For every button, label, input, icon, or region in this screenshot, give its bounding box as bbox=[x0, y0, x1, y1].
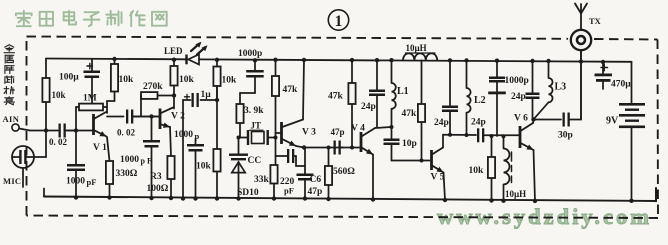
capacitor 1000pF (input RF bypass) bbox=[67, 164, 85, 198]
transistor V6 bbox=[519, 123, 534, 150]
capacitor 24p (V5 collector) bbox=[442, 60, 458, 134]
junction node (76,130.5) bbox=[74, 128, 78, 132]
watermark top: shiyong dianzi zhizuo wang (green) bbox=[16, 11, 167, 26]
svg-text:560Ω: 560Ω bbox=[333, 167, 355, 177]
svg-text:V 6: V 6 bbox=[514, 114, 528, 124]
resistor 10k (input bias upper) bbox=[42, 59, 49, 131]
junction node (109.5,197.5) bbox=[107, 195, 111, 199]
capacitor 1000pF (V2 base bypass) bbox=[143, 117, 160, 199]
junction node (217,59.8) bbox=[215, 58, 219, 62]
junction node (328.5,199) bbox=[326, 197, 330, 201]
terminal AIN bbox=[3, 114, 20, 131]
microphone MIC bbox=[3, 146, 34, 186]
capacitor 30p (output coupling) bbox=[563, 113, 582, 127]
wire V1 emitter to 330 bbox=[107, 137, 110, 161]
svg-text:1000: 1000 bbox=[66, 177, 85, 187]
junction node (304,147.5) bbox=[302, 145, 306, 149]
wire 24p to collector bbox=[376, 96, 378, 127]
wire V5 collector bus bbox=[443, 134, 476, 136]
transistor V5 bbox=[430, 148, 443, 173]
junction node (466.5,135) bbox=[465, 133, 469, 137]
svg-text:V 3: V 3 bbox=[302, 128, 316, 138]
wire V4 base bbox=[352, 147, 360, 149]
svg-text:1: 1 bbox=[335, 13, 343, 30]
resistor 270k (V2 bias) bbox=[141, 92, 172, 99]
junction node (421.5,160.5) bbox=[420, 159, 424, 163]
svg-text:LED: LED bbox=[164, 46, 183, 56]
svg-text:47k: 47k bbox=[283, 85, 299, 95]
wire L1 bottom to 10p bbox=[391, 127, 393, 139]
svg-text:JT: JT bbox=[251, 121, 262, 131]
resistor R3 100 bbox=[167, 156, 174, 198]
wire V1 base bbox=[67, 130, 92, 132]
svg-text:10µH: 10µH bbox=[505, 189, 526, 199]
junction node (497,60.7) bbox=[495, 59, 499, 63]
svg-text:470µ: 470µ bbox=[611, 80, 631, 90]
svg-text:pF: pF bbox=[87, 177, 97, 187]
wire 270k left to V2 base bbox=[134, 96, 159, 117]
transistor V2 bbox=[159, 108, 173, 130]
svg-text:24p: 24p bbox=[434, 118, 449, 128]
capacitor C6 47p (emitter to ground) bbox=[296, 148, 314, 199]
inductor L2 bbox=[467, 61, 471, 136]
junction node (491.5,200.5) bbox=[489, 198, 493, 202]
svg-text:100µ: 100µ bbox=[59, 73, 79, 83]
wire V1 collector node bbox=[107, 101, 124, 117]
svg-text:10k: 10k bbox=[222, 76, 238, 86]
wire V5 emitter down bbox=[444, 173, 446, 201]
svg-text:SD10: SD10 bbox=[237, 188, 259, 198]
wire V3 emitter bus bbox=[296, 146, 344, 148]
svg-text:CC: CC bbox=[248, 156, 262, 166]
capacitor 100u electrolytic (supply filter) bbox=[84, 59, 101, 104]
top supply rail wire bbox=[46, 59, 632, 62]
junction node (305,198.5) bbox=[303, 196, 307, 200]
junction node (304,60) bbox=[302, 58, 306, 62]
svg-text:270k: 270k bbox=[143, 82, 163, 92]
svg-text:1000p: 1000p bbox=[505, 76, 529, 86]
resistor 47k (V5 base) bbox=[418, 60, 425, 160]
junction node (391.5,60.2) bbox=[389, 58, 393, 62]
junction node (503.5,136.3) bbox=[502, 134, 506, 138]
svg-text:3. 9k: 3. 9k bbox=[244, 106, 264, 116]
junction node (548.5,61) bbox=[546, 59, 550, 63]
wire 1000p to 3.9k bbox=[240, 92, 255, 94]
junction node (450,60.4) bbox=[448, 58, 452, 62]
svg-text:1µ: 1µ bbox=[201, 90, 212, 100]
svg-text:pF: pF bbox=[284, 186, 294, 196]
junction node (352,147.5) bbox=[350, 146, 354, 150]
junction node (217,198.5) bbox=[215, 196, 219, 200]
resistor 47k (V3 base upper) bbox=[272, 60, 279, 133]
svg-text:0. 02: 0. 02 bbox=[49, 137, 68, 147]
junction node (328.5,147.5) bbox=[327, 146, 331, 150]
transistor V3 bbox=[280, 120, 303, 147]
wire V5 collector up bbox=[442, 135, 444, 148]
resistor 10k (V2 collector load) bbox=[170, 60, 177, 96]
svg-text:10k: 10k bbox=[179, 75, 195, 85]
junction node (445,200) bbox=[443, 198, 447, 202]
resistor 3.9k bbox=[236, 93, 243, 138]
svg-text:330Ω: 330Ω bbox=[116, 169, 138, 179]
svg-text:L2: L2 bbox=[474, 95, 486, 106]
battery 9V bbox=[619, 62, 645, 201]
resistor 10k (V1 collector load) bbox=[111, 59, 118, 101]
junction node (238.5,198.5) bbox=[236, 196, 240, 200]
svg-text:V 4: V 4 bbox=[351, 124, 365, 134]
svg-text:10k: 10k bbox=[196, 162, 212, 172]
junction node (46,130.5) bbox=[44, 128, 48, 132]
svg-text:10µH: 10µH bbox=[406, 43, 427, 53]
wire 1u left branch down bbox=[182, 100, 184, 199]
svg-text:AIN: AIN bbox=[3, 114, 20, 124]
svg-text:24p: 24p bbox=[511, 92, 526, 102]
svg-text:24p: 24p bbox=[471, 118, 486, 128]
label: jinshu pingbi waike (vertical text, metal shield shell) bbox=[4, 45, 14, 105]
wire 1M left to base node bbox=[75, 107, 77, 164]
junction node (533.5,119.5) bbox=[531, 117, 535, 121]
wire V3 base column bbox=[276, 133, 281, 165]
antenna bbox=[575, 4, 587, 30]
LED indicator (in series with rail) bbox=[185, 42, 207, 65]
svg-text:30p: 30p bbox=[558, 131, 573, 141]
svg-text:C6: C6 bbox=[310, 175, 322, 185]
svg-text:9V: 9V bbox=[606, 116, 619, 127]
svg-text:24p: 24p bbox=[361, 102, 376, 112]
svg-text:10k: 10k bbox=[119, 75, 135, 85]
svg-text:47k: 47k bbox=[402, 109, 418, 119]
junction node (535,200.9) bbox=[533, 199, 537, 203]
junction node (450,134.8) bbox=[448, 133, 452, 137]
resistor 33k (V3 base lower) bbox=[270, 165, 277, 199]
svg-text:10k: 10k bbox=[469, 166, 485, 176]
wire MIC to input node bbox=[34, 131, 46, 158]
junction node (391.5,127) bbox=[390, 125, 394, 129]
svg-text:47k: 47k bbox=[328, 92, 344, 102]
svg-text:1000p: 1000p bbox=[238, 49, 262, 59]
junction node (275.5,59.8) bbox=[273, 58, 277, 62]
junction node (151.5,198) bbox=[149, 196, 153, 200]
svg-text:V 1: V 1 bbox=[93, 143, 107, 153]
junction node (503.5,200.7) bbox=[501, 199, 505, 203]
junction node (174,59.7) bbox=[172, 58, 176, 62]
wire V6 collector node bbox=[533, 120, 562, 124]
svg-text:V 5: V 5 bbox=[431, 173, 445, 183]
wire V4 emitter down bbox=[372, 155, 374, 200]
junction node (631.5,200.8) bbox=[629, 199, 633, 203]
junction node (581,61.5) bbox=[579, 59, 583, 63]
svg-text:TX: TX bbox=[589, 16, 602, 26]
crystal JT bbox=[240, 130, 276, 145]
junction node (352,60.1) bbox=[350, 58, 354, 62]
svg-text:1M: 1M bbox=[83, 94, 97, 104]
svg-text:1000: 1000 bbox=[120, 155, 139, 165]
wire V3 collector to rail bbox=[303, 60, 304, 120]
wire AIN to coupling cap bbox=[19, 129, 58, 131]
resistor 47k (V4 base) bbox=[348, 60, 355, 147]
capacitor 47p (V3-V4 coupling) bbox=[334, 141, 353, 155]
junction node (491.5,136) bbox=[490, 134, 494, 138]
junction node (183,198.5) bbox=[181, 196, 185, 200]
svg-text:33k: 33k bbox=[254, 175, 270, 185]
inductor 10uH (rail series) bbox=[403, 53, 437, 60]
svg-text:10p: 10p bbox=[402, 139, 417, 149]
junction node (195.5,198.5) bbox=[193, 196, 197, 200]
capacitor 1000p (osc rail bypass) bbox=[246, 60, 264, 93]
svg-text:100Ω: 100Ω bbox=[147, 184, 169, 194]
junction node (217,100) bbox=[215, 98, 219, 102]
wire divider column bbox=[216, 86, 218, 149]
svg-text:L1: L1 bbox=[397, 86, 409, 97]
svg-text:p: p bbox=[195, 131, 200, 141]
inductor L1 bbox=[392, 60, 396, 127]
wire 10p to V5 base bbox=[392, 160, 431, 162]
junction node (377,60.2) bbox=[375, 58, 379, 62]
capacitor 470u electrolytic bbox=[595, 62, 613, 89]
junction node (238.5,137.5) bbox=[237, 136, 241, 140]
ground bottom rail wire bbox=[44, 188, 656, 201]
resistor 10k (divider lower) bbox=[213, 149, 220, 199]
junction node (255,60.3) bbox=[253, 58, 257, 62]
resistor 330 (V1 emitter) bbox=[106, 161, 113, 198]
capacitor 24p (V4 tank) bbox=[369, 60, 385, 96]
svg-text:p F: p F bbox=[141, 157, 152, 166]
capacitor 1000p (osc feedback) bbox=[187, 139, 204, 199]
wire V6 emitter down bbox=[534, 150, 536, 201]
svg-text:0. 02: 0. 02 bbox=[117, 128, 136, 138]
svg-text:47p: 47p bbox=[308, 187, 323, 197]
junction node (532.5,61) bbox=[530, 59, 534, 63]
junction node (603,62) bbox=[601, 60, 605, 64]
junction node (274,198.5) bbox=[272, 196, 276, 200]
varactor CC / SD10 bbox=[229, 138, 248, 199]
svg-text:MIC: MIC bbox=[3, 176, 21, 186]
resistor 10k (divider upper) bbox=[213, 60, 220, 100]
wire MIC ground stub bbox=[22, 168, 24, 187]
junction node (114.5,59) bbox=[112, 57, 116, 61]
inductor 10uH (V6 base choke) bbox=[504, 136, 512, 200]
junction node (466.5,60.5) bbox=[464, 58, 468, 62]
figure number circle 1 bbox=[328, 10, 348, 30]
capacitor 24p (V6 collector) bbox=[526, 61, 540, 120]
svg-text:1000: 1000 bbox=[174, 130, 193, 140]
coax connector TX bbox=[571, 30, 591, 50]
svg-text:10k: 10k bbox=[52, 90, 66, 100]
capacitor 1000p (rail bypass right) bbox=[488, 61, 506, 136]
capacitor 220pF (base-emitter) bbox=[276, 149, 297, 163]
junction node (171,198) bbox=[169, 196, 173, 200]
capacitor 10p (V4-V5 coupling) bbox=[384, 139, 400, 161]
transistor V4 bbox=[360, 128, 375, 155]
junction node (151.5,116.5) bbox=[149, 114, 153, 118]
inductor L3 bbox=[534, 61, 553, 119]
resistor 1M (V1 feedback) bbox=[76, 104, 107, 111]
junction node (373,199.5) bbox=[371, 197, 375, 201]
capacitor 0.02 (V1-V2 coupling) bbox=[126, 110, 159, 124]
junction node (174,95.5) bbox=[172, 93, 176, 97]
resistor 560 (V3 emitter) bbox=[325, 148, 332, 200]
junction node (76,197.5) bbox=[74, 195, 78, 199]
capacitor 0.02 (input coupling) bbox=[59, 124, 77, 138]
wire V2 emitter to R3 bbox=[170, 127, 171, 156]
capacitor 24p (V5-V6 coupling) bbox=[477, 128, 519, 142]
junction node (275.5,137.5) bbox=[274, 136, 278, 140]
svg-text:L3: L3 bbox=[555, 82, 567, 93]
transistor V1 bbox=[92, 112, 106, 137]
svg-text:47p: 47p bbox=[331, 127, 345, 137]
resistor 10k (V6 base) bbox=[488, 136, 495, 201]
wire TX feed line bbox=[580, 51, 582, 120]
wire V2 collector bbox=[173, 96, 175, 109]
wire V4 collector node bbox=[375, 127, 392, 128]
capacitor 1u (V2 emitter coupling) bbox=[183, 93, 217, 107]
enclosure dashed border (metal shield) bbox=[27, 37, 659, 219]
